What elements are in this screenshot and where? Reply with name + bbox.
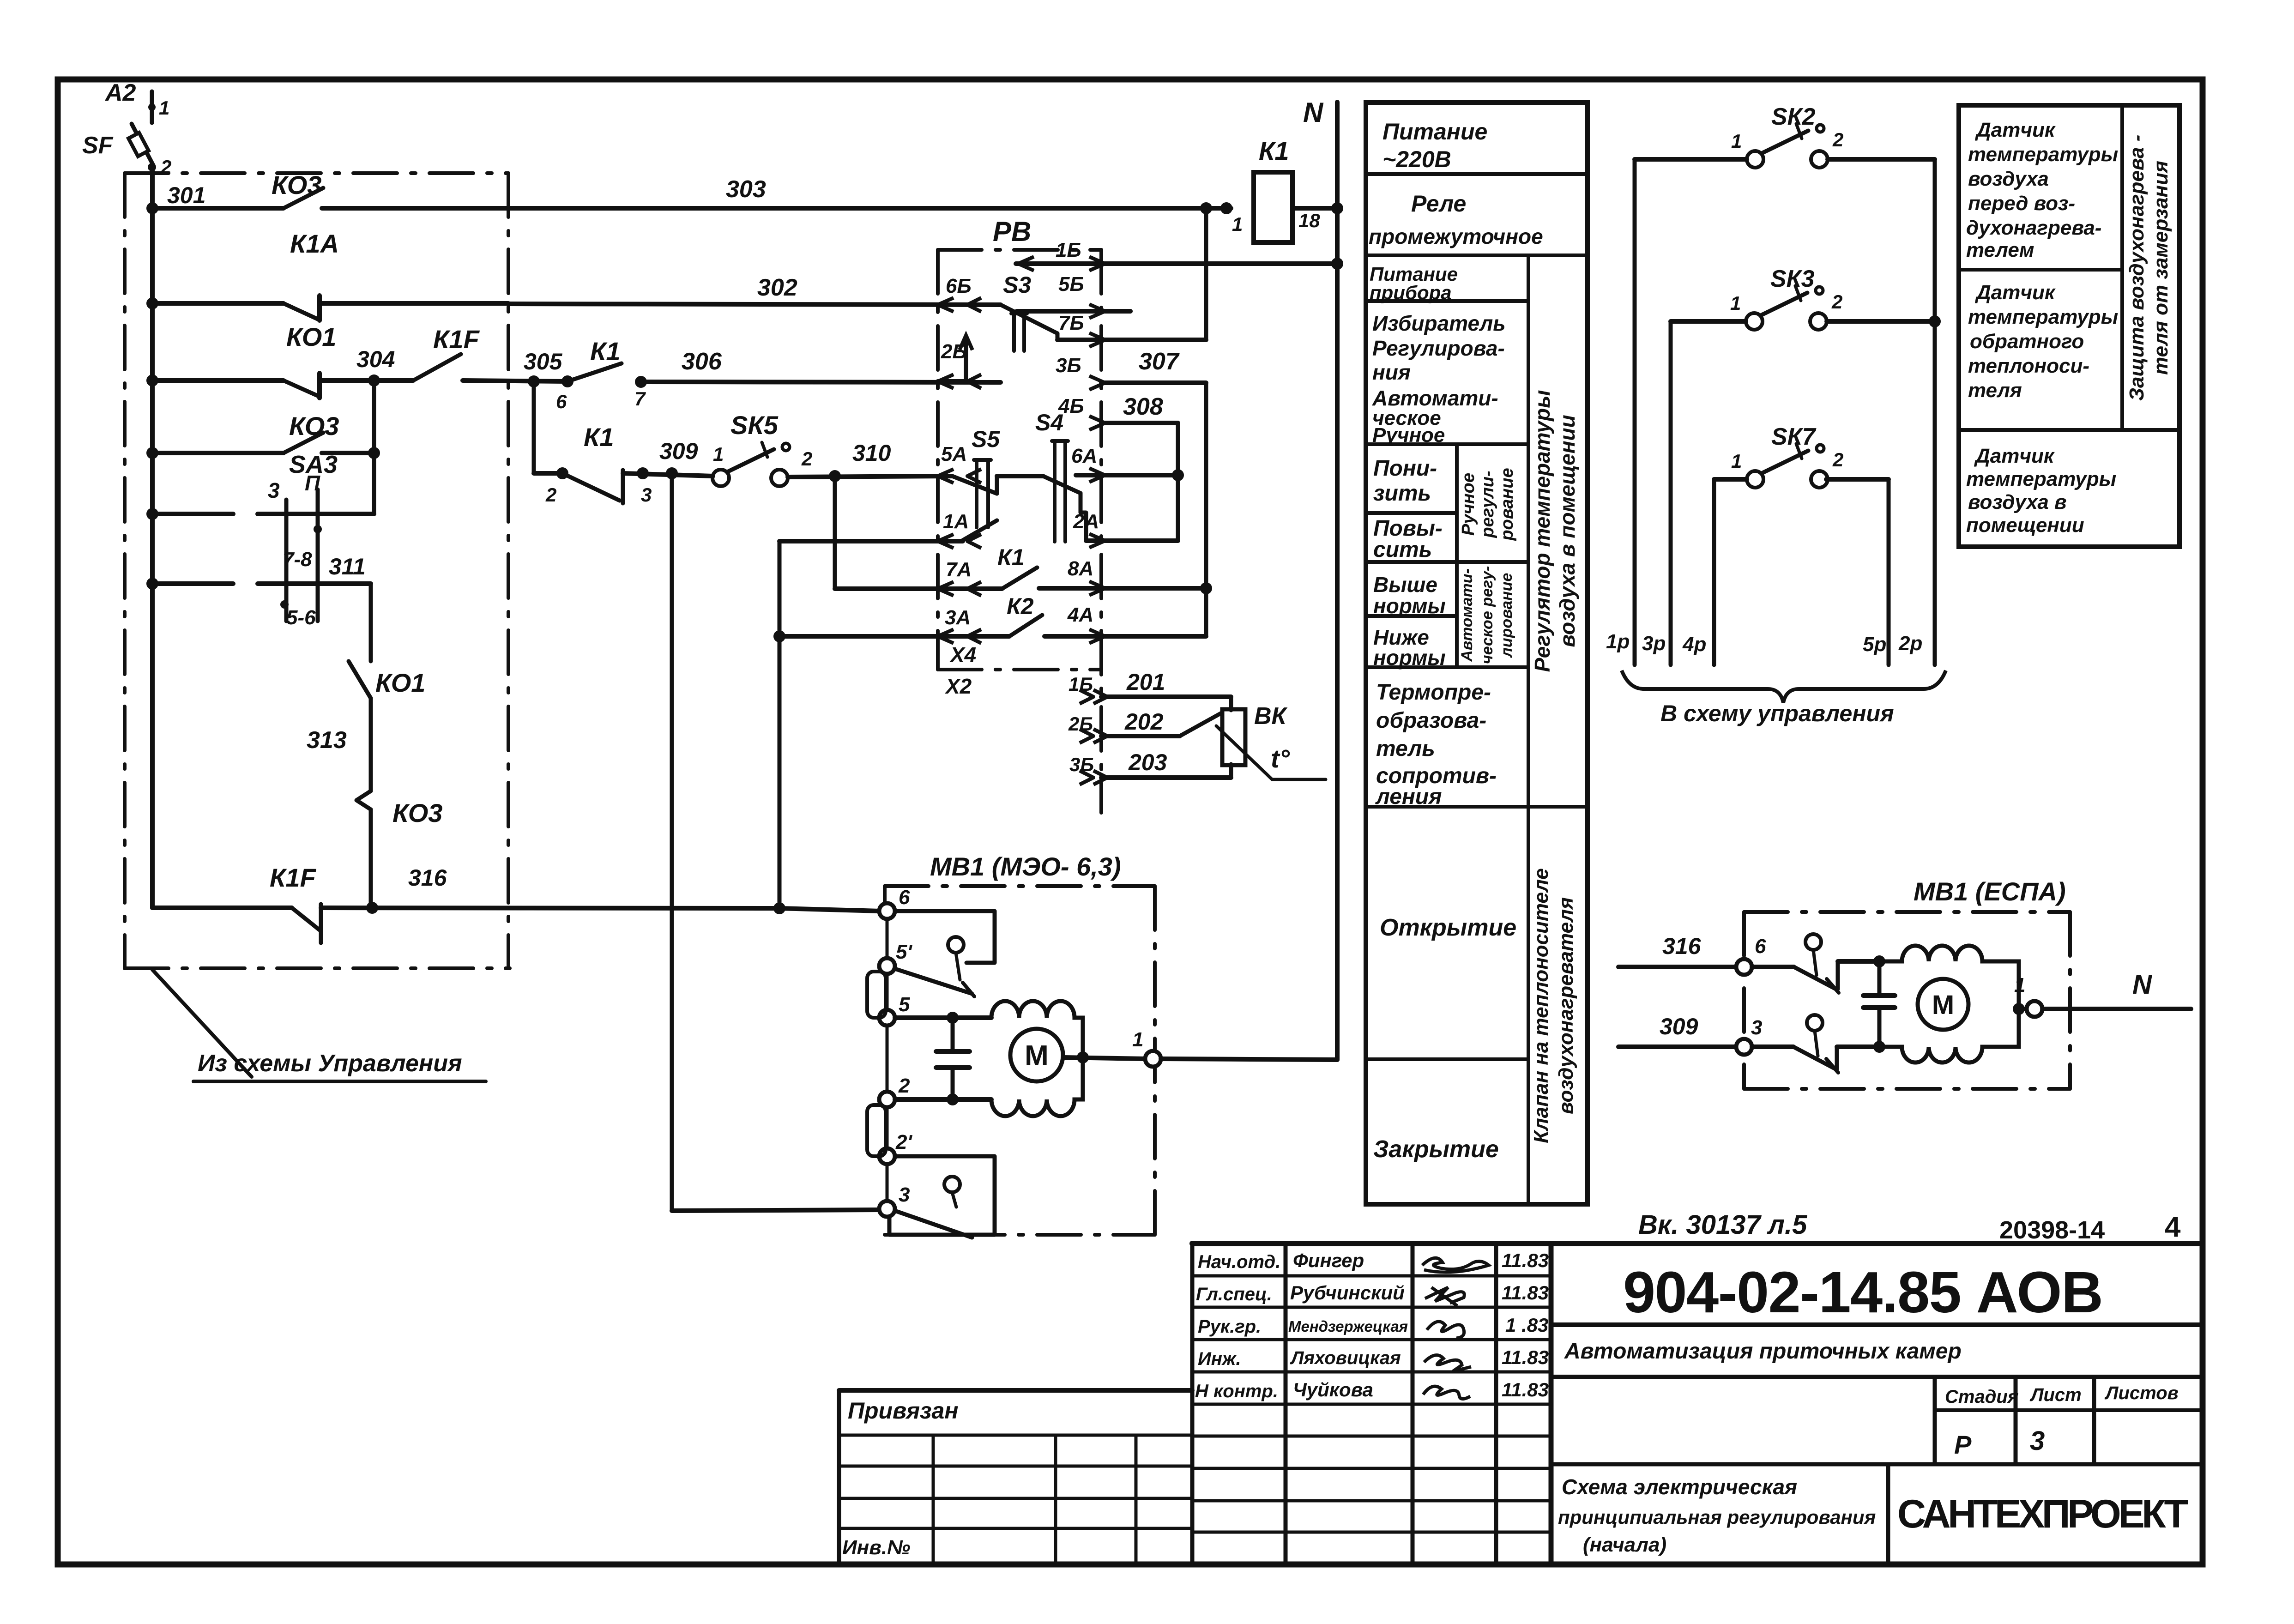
terminal 6 espa <box>1736 959 1752 975</box>
svg-text:20398-14: 20398-14 <box>1999 1216 2105 1244</box>
svg-text:прибора: прибора <box>1370 282 1452 303</box>
svg-text:2: 2 <box>1832 129 1843 151</box>
wire 1B to N <box>1331 258 1343 270</box>
doc number row <box>1551 1322 2202 1327</box>
contact K03 (NO) on 303 <box>284 188 323 208</box>
wire 307 <box>1101 383 1206 636</box>
legend rot regulator <box>1530 390 1579 672</box>
svg-text:SF: SF <box>82 132 114 159</box>
terminal 3p <box>1642 632 1666 655</box>
label 2B x2 <box>1068 713 1093 735</box>
label K1 contact67 <box>590 337 621 366</box>
junction coil pin1 <box>1220 202 1232 214</box>
svg-text:203: 203 <box>1128 749 1167 775</box>
label K2 RB <box>1007 593 1034 619</box>
svg-text:SК5: SК5 <box>730 411 779 440</box>
svg-text:4: 4 <box>2165 1211 2181 1243</box>
ESPA upper actuator <box>1805 934 1821 975</box>
svg-text:3А: 3А <box>945 606 971 629</box>
wire SK2 left <box>1635 159 1747 665</box>
stamp labels col1 <box>1195 1252 1280 1401</box>
stamp row 0 <box>1192 1274 1551 1278</box>
MEO upper limit flag <box>895 911 995 963</box>
signature 2 <box>1425 1287 1464 1306</box>
svg-text:1: 1 <box>1730 292 1741 314</box>
capacitor MEO <box>936 1012 970 1105</box>
S5 blade upper <box>952 476 997 494</box>
BK variable arrow <box>1216 726 1326 779</box>
ESPA lower actuator <box>1807 1015 1823 1056</box>
sensor txt r3 <box>1966 445 2116 537</box>
RB right chevron 4B <box>1089 416 1105 430</box>
svg-text:6А: 6А <box>1071 445 1097 467</box>
svg-text:3: 3 <box>1751 1016 1762 1039</box>
label 304 <box>356 346 395 372</box>
svg-text:(начала): (начала) <box>1583 1533 1666 1556</box>
RB left chevron 3A <box>938 629 981 643</box>
wire 316 a <box>152 906 292 910</box>
terminal 3 espa <box>1736 1039 1752 1055</box>
svg-text:А2: А2 <box>104 79 136 106</box>
svg-text:температуры: температуры <box>1968 143 2118 166</box>
stamp col lines <box>1192 1244 1551 1563</box>
legend table outer <box>1366 103 1588 1204</box>
svg-text:3р: 3р <box>1642 632 1666 655</box>
stamp row 2 <box>1192 1338 1551 1341</box>
sensor txt r2 <box>1968 281 2118 402</box>
RB right chevron 3B <box>1089 376 1105 390</box>
label SA3 <box>289 451 338 478</box>
junction 7B riser on 303 <box>1200 202 1212 214</box>
legend txt termo <box>1375 680 1497 809</box>
svg-text:К1F: К1F <box>270 863 317 892</box>
wire 316 c <box>779 908 880 911</box>
svg-text:2': 2' <box>895 1131 912 1153</box>
svg-text:1: 1 <box>2014 974 2025 996</box>
S5 blade lower <box>963 520 997 540</box>
RB left chevron 2B <box>938 374 981 388</box>
wire 203 <box>1080 764 1231 785</box>
switch SK7 <box>1731 423 1843 488</box>
RB right chevron 8A <box>1089 581 1105 595</box>
jumper bracket 2-2p <box>867 1105 886 1156</box>
privyazan rows <box>839 1435 1192 1528</box>
label t6 espa <box>1755 935 1766 958</box>
contact K03-2 (NO) <box>284 433 323 453</box>
svg-text:К1: К1 <box>997 544 1025 570</box>
bus junction y1113 <box>146 508 158 520</box>
svg-text:телем: телем <box>1966 239 2034 261</box>
svg-text:5А: 5А <box>941 443 967 465</box>
svg-text:Пони-: Пони- <box>1373 456 1437 481</box>
wire 305 <box>463 375 567 387</box>
label K1 contact23 <box>584 423 614 452</box>
svg-text:РВ: РВ <box>993 216 1031 247</box>
wire row1025 b <box>623 467 713 479</box>
svg-text:М: М <box>1932 990 1954 1020</box>
terminal 3 MEO <box>879 1201 895 1217</box>
svg-text:304: 304 <box>356 346 395 372</box>
MEO lower actuator <box>944 1177 960 1207</box>
svg-text:воздуха в: воздуха в <box>1968 491 2067 513</box>
legend col mid <box>1455 444 1459 667</box>
label SK5-2 <box>801 448 812 470</box>
label X2 <box>944 674 972 698</box>
wire 310 <box>788 470 952 482</box>
resistor BK <box>1222 709 1245 765</box>
label K1 coil <box>1259 136 1289 165</box>
stamp row 6 <box>1192 1467 1551 1470</box>
svg-text:Автомати-: Автомати- <box>1458 568 1476 662</box>
jumper bracket 5-5p <box>867 972 886 1018</box>
ESPA box dash-dot <box>1744 912 2070 1089</box>
pin 7 label <box>634 388 646 410</box>
label K1F-2 <box>270 863 317 892</box>
svg-text:Питание: Питание <box>1382 119 1487 145</box>
terminal 1p <box>1606 630 1630 653</box>
label 1B x2 <box>1069 673 1093 695</box>
contact K01 branch (NO) <box>349 661 371 698</box>
pin 3 label k1 <box>641 484 652 506</box>
riser 1455 <box>670 473 674 1211</box>
svg-text:6: 6 <box>899 886 910 909</box>
svg-text:1: 1 <box>1731 450 1742 472</box>
sensor table outer <box>1959 105 2179 547</box>
MEO edge line <box>886 911 889 1209</box>
label 6A <box>1071 445 1097 467</box>
svg-text:Рубчинский: Рубчинский <box>1290 1282 1405 1304</box>
svg-text:сить: сить <box>1373 537 1432 562</box>
legend txt izbiratel <box>1372 311 1506 447</box>
svg-text:Регулирова-: Регулирова- <box>1372 336 1505 360</box>
svg-text:308: 308 <box>1123 393 1163 420</box>
label 2B <box>941 340 967 363</box>
legend txt zakrytie <box>1373 1136 1499 1163</box>
svg-text:306: 306 <box>682 348 722 375</box>
S4 comb <box>1052 441 1068 542</box>
wire 313 <box>369 698 373 791</box>
svg-text:Стадия: Стадия <box>1945 1387 2018 1407</box>
label K1 RB <box>997 544 1025 570</box>
svg-text:7Б: 7Б <box>1058 312 1084 334</box>
svg-text:3: 3 <box>899 1183 910 1206</box>
svg-text:11.83: 11.83 <box>1502 1379 1549 1401</box>
label t6 <box>899 886 910 909</box>
riser 1688 <box>773 541 785 908</box>
label 7A <box>946 558 972 581</box>
svg-text:6Б: 6Б <box>946 275 972 297</box>
legend row line1 <box>1366 172 1588 176</box>
label t1 espa <box>2014 974 2025 996</box>
svg-text:t°: t° <box>1271 744 1290 773</box>
wire 316 espa <box>1618 965 1737 969</box>
wire 302 left <box>152 301 284 306</box>
svg-text:теля: теля <box>1968 379 2022 402</box>
wire 316 b <box>321 902 785 914</box>
contact K1F-2 (NC) <box>292 904 321 943</box>
svg-text:Датчик: Датчик <box>1974 445 2055 467</box>
label 305 <box>524 349 563 374</box>
wire 201 <box>1080 690 1231 710</box>
svg-text:1р: 1р <box>1606 630 1630 653</box>
label t3 <box>899 1183 910 1206</box>
svg-text:SК2: SК2 <box>1771 103 1816 130</box>
terminal 4p <box>1682 633 1706 656</box>
svg-text:302: 302 <box>757 274 797 301</box>
svg-text:8А: 8А <box>1068 557 1093 580</box>
cabinet boundary dash-dot box <box>125 173 510 968</box>
svg-text:Выше: Выше <box>1373 573 1437 597</box>
object name text <box>1564 1339 1962 1364</box>
svg-text:К1: К1 <box>1259 136 1289 165</box>
wire 1A <box>779 539 963 543</box>
sensor rot zashita <box>2125 135 2172 401</box>
wire A2 drop <box>148 91 156 123</box>
svg-text:316: 316 <box>408 865 447 891</box>
label 3B x2 <box>1069 754 1094 775</box>
wire 308 <box>1101 423 1178 541</box>
stamp row 4 <box>1192 1403 1551 1406</box>
switch SA3 bars <box>286 489 318 621</box>
capacitor ESPA <box>1863 955 1895 1053</box>
label K1F <box>433 325 480 354</box>
label 5-6 <box>286 606 316 629</box>
svg-text:Термопре-: Термопре- <box>1376 680 1491 705</box>
label MB1 ESPA <box>1914 877 2066 906</box>
svg-text:201: 201 <box>1126 669 1165 695</box>
wire to MEO term3 <box>672 1210 880 1211</box>
label RB <box>993 216 1031 247</box>
label 1B <box>1056 239 1081 261</box>
N bus <box>1335 102 1340 1060</box>
wire 6A <box>1076 469 1184 481</box>
stadia P <box>1954 1430 1972 1459</box>
label 8A <box>1068 557 1093 580</box>
svg-text:К1F: К1F <box>433 325 480 354</box>
wire4 right <box>322 447 380 459</box>
svg-text:Фингер: Фингер <box>1293 1250 1364 1271</box>
svg-text:духонагрева-: духонагрева- <box>1966 217 2101 239</box>
wire row1025 a <box>534 467 568 479</box>
legend row line7 <box>1366 614 1457 618</box>
pin 6 label <box>556 391 567 412</box>
svg-text:6: 6 <box>556 391 567 412</box>
svg-text:К2: К2 <box>1007 593 1034 619</box>
legend txt povysit <box>1373 516 1443 562</box>
svg-text:7-8: 7-8 <box>283 548 312 571</box>
svg-text:5': 5' <box>896 941 912 963</box>
big doc number <box>1623 1260 2103 1325</box>
svg-text:Инж.: Инж. <box>1198 1349 1241 1369</box>
stamp row 8 <box>1192 1531 1551 1534</box>
svg-text:Избиратель: Избиратель <box>1372 311 1506 335</box>
wire 5B internal <box>1017 309 1130 314</box>
label 3 pos <box>268 478 280 502</box>
label P pos <box>305 471 320 495</box>
contact K2 3A-4A <box>1009 615 1042 636</box>
svg-text:воздуха: воздуха <box>1968 168 2049 190</box>
leader line iz shemy <box>152 970 252 1077</box>
terminal 5p MEO <box>879 958 895 974</box>
svg-text:7: 7 <box>634 388 646 410</box>
label t deg <box>1271 744 1290 773</box>
circuit breaker SF <box>128 124 153 165</box>
wire 313 lower <box>366 809 378 914</box>
label 202 <box>1124 709 1164 735</box>
svg-text:5р: 5р <box>1863 633 1886 656</box>
wire 301 <box>152 206 284 211</box>
label 310 <box>852 440 891 466</box>
legend row line4 <box>1366 442 1528 446</box>
svg-text:теля от замерзания: теля от замерзания <box>2149 161 2172 375</box>
RB right chevron 6A <box>1089 468 1105 482</box>
stamp row 7 <box>1192 1499 1551 1503</box>
RB right chevron 2A <box>1089 534 1105 548</box>
label 313 <box>307 727 347 754</box>
svg-text:ния: ния <box>1372 360 1411 384</box>
RB right chevron 7B <box>1089 333 1105 347</box>
svg-text:1А: 1А <box>943 510 969 533</box>
svg-text:регули-: регули- <box>1478 471 1497 538</box>
svg-text:К1: К1 <box>590 337 621 366</box>
S3 blade <box>1001 305 1057 340</box>
sensor col divider <box>2120 105 2124 430</box>
label 316 espa <box>1662 933 1702 959</box>
privyazan cols <box>933 1435 1136 1563</box>
svg-text:Лист: Лист <box>2029 1385 2082 1405</box>
wire 3A <box>779 634 1009 639</box>
stadia row line <box>1551 1462 2202 1467</box>
label 316 <box>408 865 447 891</box>
MEO wire t2 <box>895 1097 991 1102</box>
wire MEO to N <box>1161 1059 1337 1060</box>
legend txt rele <box>1369 191 1543 248</box>
label 3B <box>1056 354 1081 377</box>
label S5 <box>972 426 1000 452</box>
wire 306 <box>641 382 1001 382</box>
legend row line10 <box>1366 1057 1528 1061</box>
label K03 second <box>289 411 339 441</box>
svg-text:301: 301 <box>167 182 205 208</box>
svg-text:нормы: нормы <box>1373 594 1446 618</box>
svg-text:316: 316 <box>1662 933 1702 959</box>
legend txt vyshe <box>1373 573 1446 618</box>
arrow up 2B <box>960 335 972 381</box>
node A2 label <box>104 79 136 106</box>
legend rot klapan <box>1530 868 1577 1143</box>
bus junction y451 <box>146 202 158 214</box>
RB right chevron 4A <box>1089 629 1105 643</box>
svg-text:воздуха в помещении: воздуха в помещении <box>1555 415 1579 647</box>
svg-text:7А: 7А <box>946 558 972 581</box>
wire4 left <box>152 451 284 455</box>
svg-text:5Б: 5Б <box>1058 273 1084 296</box>
svg-text:18: 18 <box>1298 210 1320 231</box>
legend row line6 <box>1366 560 1528 564</box>
label 302 <box>757 274 797 301</box>
signature 5 <box>1423 1386 1470 1399</box>
svg-text:КО3: КО3 <box>272 170 321 199</box>
inv no label <box>842 1536 910 1559</box>
riser 1808 <box>833 476 837 589</box>
svg-text:3: 3 <box>641 484 652 506</box>
label t1 MEO <box>1132 1028 1143 1051</box>
svg-text:нормы: нормы <box>1373 646 1446 670</box>
label 306 <box>682 348 722 375</box>
svg-text:ления: ления <box>1375 785 1442 809</box>
wire 7B internal <box>1057 338 1101 342</box>
MEO lower blade <box>895 1211 972 1238</box>
terminal 5p <box>1863 633 1886 656</box>
label X4 <box>949 643 976 667</box>
RB left chevron 6B <box>938 298 981 312</box>
svg-text:307: 307 <box>1139 348 1180 375</box>
bus junction y1264 <box>146 578 158 590</box>
svg-text:ческое регу-: ческое регу- <box>1479 566 1496 664</box>
svg-text:311: 311 <box>329 554 366 580</box>
wire espa to N <box>2042 1007 2191 1011</box>
privyazan box <box>839 1390 1192 1563</box>
ESPA lower winding <box>1879 1009 2019 1063</box>
S4 blade <box>1043 476 1086 541</box>
svg-text:N: N <box>1303 97 1324 128</box>
wire5 segs <box>152 512 374 516</box>
svg-text:Ручное: Ручное <box>1372 424 1445 447</box>
wire 2A <box>1086 538 1178 543</box>
label 303 <box>726 176 766 203</box>
svg-text:11.83: 11.83 <box>1502 1250 1549 1271</box>
pin 2 label <box>148 156 171 178</box>
label K1A <box>290 229 339 258</box>
svg-text:2Б: 2Б <box>1068 713 1093 735</box>
RB relay box dash-dot <box>938 250 1101 813</box>
svg-text:SК7: SК7 <box>1771 423 1817 450</box>
svg-text:11.83: 11.83 <box>1502 1346 1549 1368</box>
label t2p <box>895 1131 912 1153</box>
svg-text:КО3: КО3 <box>392 798 442 827</box>
ESPA upper switch <box>1752 961 1879 993</box>
handwritten doc no <box>1638 1210 1807 1240</box>
svg-text:Мендзержецкая: Мендзержецкая <box>1288 1318 1408 1335</box>
pin 2 label k1 <box>545 484 556 506</box>
svg-text:Из схемы Управления: Из схемы Управления <box>198 1050 462 1077</box>
svg-text:обратного: обратного <box>1970 330 2084 353</box>
contact K1 6-7 (NO) <box>561 363 647 388</box>
label 1A <box>943 510 969 533</box>
svg-text:904-02-14.85 АОВ: 904-02-14.85 АОВ <box>1623 1260 2103 1325</box>
wire 7B ext <box>1101 208 1206 340</box>
terminal 5 MEO <box>879 1010 895 1026</box>
svg-text:Регулятор температуры: Регулятор температуры <box>1530 390 1554 672</box>
stadia labels <box>1945 1383 2179 1407</box>
sensor txt r1 <box>1966 119 2118 261</box>
MEO motor out wire <box>1063 1051 1146 1063</box>
terminal 2 MEO <box>879 1092 895 1107</box>
svg-text:Схема электрическая: Схема электрическая <box>1562 1475 1797 1499</box>
svg-text:1: 1 <box>159 97 169 119</box>
terminal 2p <box>1898 632 1922 655</box>
motor M MEO <box>1010 1029 1063 1081</box>
riser 1156 <box>532 381 536 473</box>
svg-text:П: П <box>305 471 320 495</box>
signature 1 <box>1422 1258 1489 1272</box>
legend txt otkrytie <box>1380 914 1516 941</box>
svg-text:Реле: Реле <box>1411 191 1466 217</box>
svg-text:309: 309 <box>1660 1014 1698 1039</box>
label 7-8 <box>283 548 312 571</box>
svg-text:Х4: Х4 <box>949 643 976 667</box>
wire SK2 right <box>1828 159 1935 665</box>
